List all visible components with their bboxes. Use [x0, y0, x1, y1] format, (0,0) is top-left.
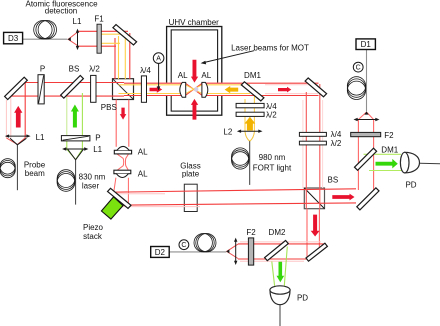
- svg-text:λ/2: λ/2: [266, 110, 277, 119]
- svg-text:BS: BS: [328, 175, 339, 184]
- svg-text:D2: D2: [155, 248, 166, 257]
- svg-text:PBS: PBS: [101, 103, 117, 112]
- svg-text:L1: L1: [36, 133, 45, 142]
- svg-text:detection: detection: [45, 7, 77, 16]
- svg-text:DM2: DM2: [269, 228, 286, 237]
- svg-text:plate: plate: [182, 169, 200, 178]
- svg-text:UHV chamber: UHV chamber: [169, 18, 220, 27]
- svg-text:BS: BS: [69, 65, 80, 74]
- svg-text:Laser beams for MOT: Laser beams for MOT: [231, 43, 309, 52]
- svg-text:F2: F2: [384, 131, 394, 140]
- svg-text:980 nm: 980 nm: [259, 153, 286, 162]
- svg-text:stack: stack: [83, 232, 103, 241]
- svg-text:Piezo: Piezo: [83, 223, 104, 232]
- svg-text:C: C: [181, 242, 186, 249]
- svg-text:D3: D3: [8, 34, 19, 43]
- svg-text:P: P: [40, 65, 45, 74]
- svg-text:PD: PD: [297, 294, 308, 303]
- svg-text:L2: L2: [223, 128, 232, 137]
- svg-text:DM1: DM1: [244, 71, 261, 80]
- svg-text:beam: beam: [25, 169, 45, 178]
- svg-text:L1: L1: [93, 145, 102, 154]
- svg-text:C: C: [356, 65, 361, 72]
- svg-text:P: P: [95, 134, 100, 143]
- svg-text:FORT light: FORT light: [253, 164, 292, 173]
- svg-text:AL: AL: [138, 147, 148, 156]
- svg-text:830 nm: 830 nm: [79, 173, 106, 182]
- svg-text:F2: F2: [246, 228, 256, 237]
- svg-text:λ/4: λ/4: [331, 130, 342, 139]
- svg-text:D1: D1: [361, 40, 372, 49]
- svg-text:λ/2: λ/2: [331, 139, 342, 148]
- svg-text:PD: PD: [405, 180, 416, 189]
- svg-text:AL: AL: [178, 71, 188, 80]
- svg-text:F1: F1: [94, 14, 104, 23]
- svg-text:AL: AL: [201, 71, 211, 80]
- svg-text:λ/4: λ/4: [140, 66, 151, 75]
- svg-text:DM1: DM1: [381, 146, 398, 155]
- svg-text:AL: AL: [138, 170, 148, 179]
- svg-text:L1: L1: [73, 17, 82, 26]
- svg-text:λ/2: λ/2: [89, 65, 100, 74]
- svg-text:laser: laser: [82, 182, 100, 191]
- svg-text:A: A: [156, 56, 161, 63]
